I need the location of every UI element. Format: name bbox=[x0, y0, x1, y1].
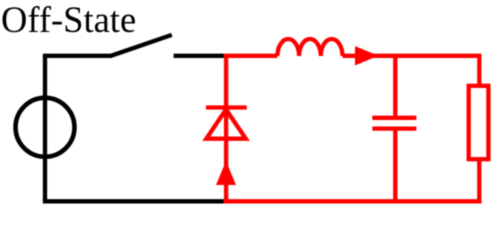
svg-text:Off-State: Off-State bbox=[1, 0, 136, 40]
